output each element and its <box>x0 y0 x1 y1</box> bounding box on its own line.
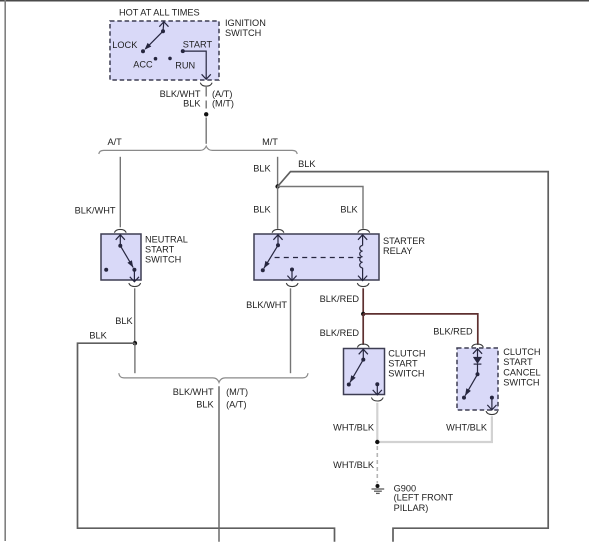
junction node <box>361 312 365 316</box>
svg-text:A/T: A/T <box>108 137 123 147</box>
connector above starter relay (switch pin) <box>272 229 284 232</box>
svg-text:STARTER: STARTER <box>383 236 425 246</box>
connector below clutch start switch <box>371 398 383 402</box>
svg-text:NEUTRAL: NEUTRAL <box>145 234 188 244</box>
wire to split <box>205 118 207 144</box>
svg-text:SWITCH: SWITCH <box>388 369 424 379</box>
starter relay <box>254 234 379 281</box>
wire merged output <box>218 386 220 542</box>
ground G900 <box>372 484 385 493</box>
wire BLK below neutral start switch <box>134 288 136 343</box>
svg-text:(LEFT FRONT: (LEFT FRONT <box>394 493 454 503</box>
wire BLK/RED from relay coil <box>362 288 364 314</box>
svg-text:BLK/RED: BLK/RED <box>433 326 473 336</box>
ignition switch <box>110 21 219 80</box>
svg-text:RUN: RUN <box>175 61 195 71</box>
svg-text:BLK/WHT: BLK/WHT <box>246 300 287 310</box>
svg-text:BLK/RED: BLK/RED <box>320 328 360 338</box>
wire WHT/BLK from clutch start switch <box>376 403 378 442</box>
svg-text:BLK: BLK <box>340 205 358 215</box>
wire BLK to right and down right side <box>278 172 549 542</box>
svg-text:BLK: BLK <box>89 330 107 340</box>
wire WHT/BLK dashed to ground <box>376 446 378 484</box>
connector below neutral start switch <box>129 283 141 287</box>
svg-text:START: START <box>145 245 175 255</box>
connector above clutch start cancel switch <box>472 344 484 347</box>
svg-text:BLK: BLK <box>196 400 214 410</box>
svg-text:START: START <box>503 357 533 367</box>
svg-text:(M/T): (M/T) <box>212 98 234 108</box>
svg-text:CLUTCH: CLUTCH <box>503 347 540 357</box>
wire A/T branch <box>119 157 121 228</box>
svg-text:WHT/BLK: WHT/BLK <box>333 422 375 432</box>
svg-text:WHT/BLK: WHT/BLK <box>333 460 375 470</box>
wire M/T branch <box>277 157 279 187</box>
svg-text:BLK: BLK <box>298 159 316 169</box>
wire BLK/WHT from relay to merge brace <box>290 288 292 373</box>
wire BLK to bottom left <box>78 343 335 542</box>
svg-text:BLK: BLK <box>253 163 271 173</box>
svg-text:SWITCH: SWITCH <box>503 378 539 388</box>
svg-text:SWITCH: SWITCH <box>225 28 261 38</box>
svg-text:IGNITION: IGNITION <box>225 18 266 28</box>
connector below starter relay (switch out) <box>286 283 298 287</box>
wire BLK/RED node to cancel switch <box>363 314 478 345</box>
svg-text:START: START <box>183 40 213 50</box>
svg-text:RELAY: RELAY <box>383 246 412 256</box>
wire BLK/RED node to clutch start switch <box>362 314 364 345</box>
svg-text:BLK/RED: BLK/RED <box>320 294 360 304</box>
connector above neutral start switch <box>114 229 126 232</box>
svg-text:LOCK: LOCK <box>112 40 138 50</box>
clutch start switch <box>344 349 385 395</box>
connector below ignition switch <box>200 83 212 87</box>
wire WHT/BLK from cancel switch <box>377 416 492 442</box>
svg-text:BLK: BLK <box>183 98 201 108</box>
neutral start switch <box>101 234 141 282</box>
wire node to merge brace <box>134 343 136 373</box>
junction node <box>275 184 279 188</box>
svg-text:SWITCH: SWITCH <box>145 254 181 264</box>
svg-text:BLK: BLK <box>253 205 271 215</box>
svg-text:PILLAR): PILLAR) <box>394 503 429 513</box>
svg-text:CLUTCH: CLUTCH <box>388 348 425 358</box>
svg-text:WHT/BLK: WHT/BLK <box>446 422 488 432</box>
svg-text:BLK: BLK <box>115 316 133 326</box>
wire node down to relay <box>277 187 279 229</box>
connector above starter relay (coil pin) <box>358 229 370 232</box>
clutch start cancel switch <box>457 348 498 410</box>
svg-text:M/T: M/T <box>262 137 278 147</box>
svg-text:BLK/WHT: BLK/WHT <box>173 387 214 397</box>
connector below starter relay (coil out) <box>357 283 369 287</box>
connector below clutch start cancel switch <box>486 411 498 415</box>
connector above clutch start switch <box>357 344 369 347</box>
junction node <box>133 341 137 345</box>
wire from ignition switch (solid A/T segment) <box>205 87 207 97</box>
svg-text:CANCEL: CANCEL <box>503 367 540 377</box>
wire node right to relay coil <box>278 187 363 229</box>
junction node <box>375 440 379 444</box>
junction node <box>204 112 208 116</box>
wire dashed M/T segment <box>205 101 207 109</box>
merge brace (M/T + A/T wires join) <box>119 373 308 382</box>
A/T M/T split brace <box>99 146 297 154</box>
svg-text:HOT AT ALL TIMES: HOT AT ALL TIMES <box>119 8 200 18</box>
svg-text:(A/T): (A/T) <box>226 400 246 410</box>
svg-text:START: START <box>388 359 418 369</box>
svg-text:BLK/WHT: BLK/WHT <box>75 205 116 215</box>
svg-text:ACC: ACC <box>133 60 153 70</box>
svg-text:(M/T): (M/T) <box>226 387 248 397</box>
